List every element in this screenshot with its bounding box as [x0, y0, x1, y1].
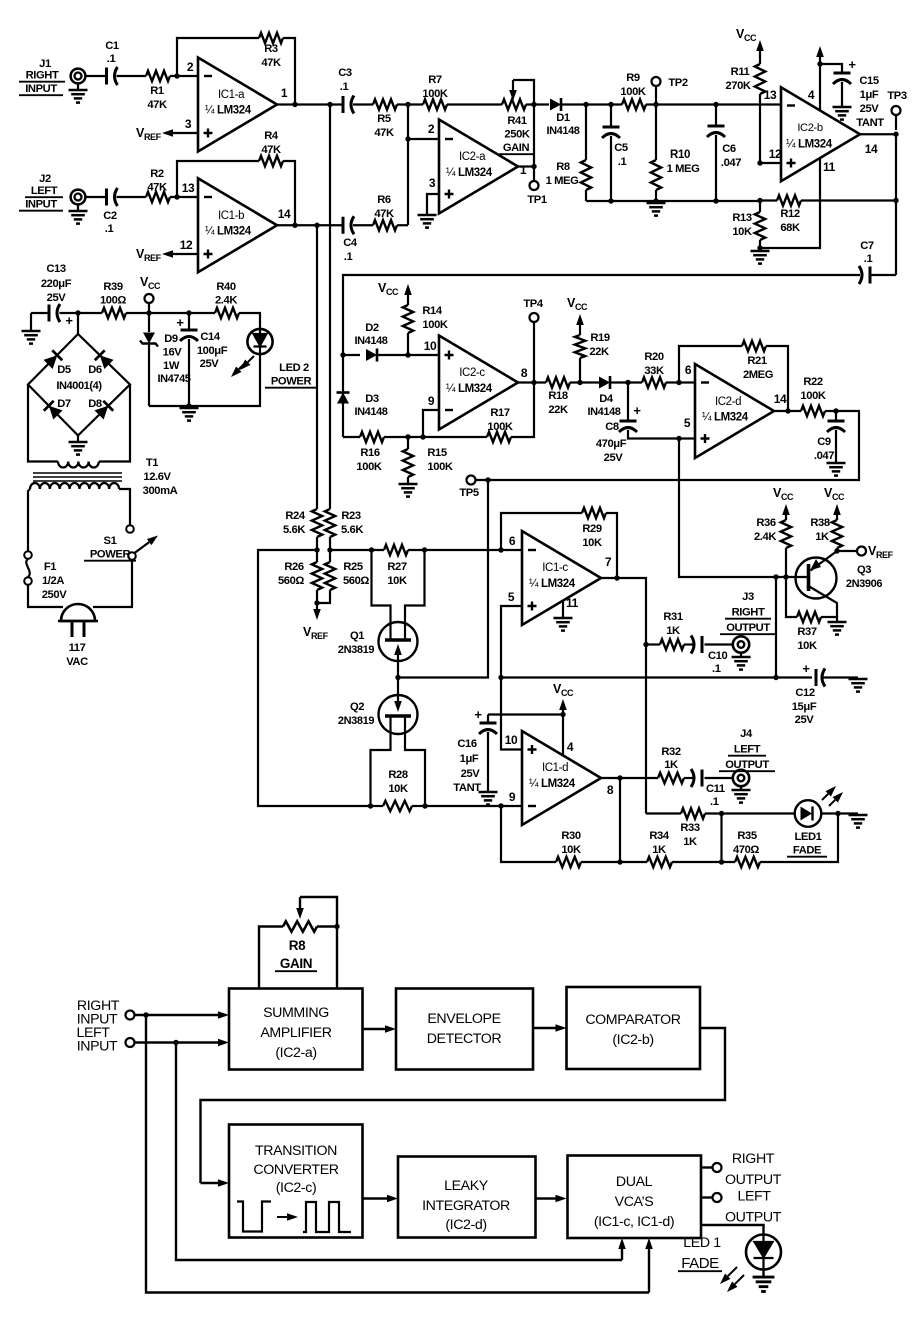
wire bridge stem: [77, 313, 79, 334]
node IC1-a output/R3: [292, 102, 297, 107]
wire to LED 1 (block): [701, 1225, 764, 1234]
node Q1 gate: [395, 675, 400, 680]
wire arrow transition to leaky: [363, 1197, 388, 1199]
LED 1 arrows (block): [728, 1267, 737, 1276]
waveform arrow: [277, 1216, 287, 1218]
wire R34 to R35: [672, 861, 735, 863]
node R13 bottom / pin 11: [757, 245, 762, 250]
resistor R39 100 ohm: [102, 308, 126, 318]
svg-text:R21: R21: [747, 355, 767, 367]
svg-text:.1: .1: [105, 223, 114, 235]
svg-text:R20: R20: [644, 351, 664, 363]
ground (pin 11): [554, 617, 573, 620]
svg-text:100K: 100K: [422, 88, 447, 100]
wire left input arrow: [135, 1041, 219, 1043]
svg-text:D5: D5: [57, 364, 71, 376]
terminal V_REF (Q3 emitter): [837, 550, 857, 552]
svg-text:S1: S1: [104, 535, 117, 547]
wire LED1 to ground (block): [762, 1270, 764, 1277]
svg-text:C1: C1: [105, 40, 119, 52]
svg-text:C12: C12: [795, 687, 815, 699]
svg-text:AMPLIFIER: AMPLIFIER: [260, 1025, 331, 1041]
svg-text:IC1-c: IC1-c: [542, 562, 568, 574]
ground (pin 3 IC2-a): [418, 214, 437, 217]
svg-text:¼ LM324: ¼ LM324: [786, 139, 833, 151]
node R31 branch: [643, 642, 648, 647]
resistor R23 5.6K: [325, 509, 335, 537]
op-amp IC2-d 1/4 LM324: [695, 364, 774, 458]
resistor R19 22K: [579, 330, 581, 335]
ground (Q3 collector/R37): [828, 621, 847, 624]
node C8 top: [625, 380, 630, 385]
svg-text:TP5: TP5: [459, 487, 478, 499]
node pin2 branch: [405, 136, 410, 141]
svg-text:RIGHT: RIGHT: [26, 70, 59, 82]
wire arrow summing to envelope: [363, 1028, 386, 1030]
resistor R14 100K: [407, 300, 409, 305]
resistor R15 100K: [403, 449, 413, 477]
node bias line/branch: [773, 675, 778, 680]
wire primary right to switch S1: [119, 489, 130, 525]
ground (C12): [849, 678, 868, 681]
node Vcc/D9: [146, 310, 151, 315]
node R30/R34 junction: [617, 859, 622, 864]
node pin 9 junction: [498, 803, 503, 808]
node summing junction (pin 2 IC2-a): [405, 102, 410, 107]
svg-text:470Ω: 470Ω: [733, 844, 759, 856]
terminal RIGHT OUTPUT (block): [701, 1166, 713, 1168]
capacitor C15 1uF 25V TANT: [820, 64, 842, 72]
svg-text:1μF: 1μF: [860, 89, 879, 101]
svg-text:13: 13: [764, 88, 777, 102]
ground (LED 1 block): [753, 1276, 775, 1279]
svg-text:3: 3: [429, 176, 436, 190]
ground (R15): [399, 483, 418, 486]
ground (bridge): [69, 441, 88, 444]
node R28 right: [422, 803, 427, 808]
V_REF arrow down: [316, 603, 318, 609]
svg-text:POWER: POWER: [90, 549, 131, 561]
wire C10 to J3: [705, 643, 733, 645]
wire detector bottom rail: [586, 201, 760, 212]
jack J2 LEFT INPUT: [71, 190, 86, 205]
resistor R12 68K: [777, 195, 801, 205]
svg-text:OUTPUT: OUTPUT: [725, 1172, 782, 1188]
svg-text:68K: 68K: [780, 222, 800, 234]
resistor R32 1K: [658, 773, 684, 783]
svg-text:Q3: Q3: [857, 564, 871, 576]
svg-text:R36: R36: [756, 517, 776, 529]
svg-text:+: +: [65, 313, 73, 328]
wire Q1 drain: [372, 550, 391, 640]
wire IC2-d output to R22: [774, 410, 801, 412]
node R24/left channel line: [314, 547, 319, 552]
capacitor C12 15uF 25V: [815, 669, 818, 686]
wire feedback up from node: [177, 38, 259, 76]
block TRANSITION CONVERTER (IC2-c): [229, 1125, 363, 1238]
svg-text:T1: T1: [146, 457, 158, 469]
svg-text:.1: .1: [340, 81, 349, 93]
svg-text:D1: D1: [556, 112, 570, 124]
AC plug 117 VAC: [61, 604, 95, 621]
resistor R24 5.6K: [312, 509, 322, 537]
svg-text:560Ω: 560Ω: [278, 575, 304, 587]
svg-text:C15: C15: [859, 75, 879, 87]
svg-text:2: 2: [187, 60, 194, 74]
wire bridge left to secondary: [28, 385, 58, 462]
svg-text:100K: 100K: [427, 461, 452, 473]
svg-text:D3: D3: [365, 393, 379, 405]
resistor R33 1K: [681, 808, 705, 818]
node R27 right: [422, 547, 427, 552]
node R28 left: [368, 803, 373, 808]
svg-text:R23: R23: [341, 510, 361, 522]
svg-text:2.4K: 2.4K: [754, 531, 776, 543]
svg-text:22K: 22K: [548, 404, 568, 416]
node right input branch: [143, 1012, 148, 1017]
svg-text:+: +: [474, 707, 482, 722]
resistor R1 47K: [146, 71, 170, 81]
svg-text:8: 8: [521, 366, 528, 380]
node C14 bottom / ground: [186, 403, 191, 408]
ground (J3): [732, 656, 751, 659]
svg-text:(IC2-b): (IC2-b): [612, 1032, 653, 1048]
node R12 left / R13 top: [757, 198, 762, 203]
svg-text:INPUT: INPUT: [25, 199, 57, 211]
svg-text:R10: R10: [670, 149, 690, 161]
svg-text:R31: R31: [663, 611, 683, 623]
svg-text:VCA’S: VCA’S: [615, 1194, 654, 1210]
svg-text:C14: C14: [200, 331, 221, 343]
svg-text:R40: R40: [216, 281, 236, 293]
svg-text:1: 1: [520, 163, 527, 177]
terminal LEFT INPUT (block): [126, 1038, 135, 1047]
switch S1 POWER: [126, 525, 134, 533]
node C6 top: [713, 102, 718, 107]
wire LED2 down to bottom rail: [149, 354, 260, 406]
wire bridge bottom to ground: [77, 436, 79, 442]
node R38/emitter/V_REF: [834, 548, 839, 553]
svg-text:¼ LM324: ¼ LM324: [205, 226, 252, 238]
wire R24 vertical from IC1-b output: [316, 225, 318, 509]
test point TP4: [533, 322, 535, 383]
svg-text:ENVELOPE: ENVELOPE: [427, 1011, 500, 1027]
svg-text:IC2-b: IC2-b: [797, 122, 823, 134]
svg-text:¼ LM324: ¼ LM324: [529, 778, 576, 790]
wire feedback R21 up: [679, 346, 742, 383]
node R23/right channel line: [327, 547, 332, 552]
svg-text:47K: 47K: [261, 57, 281, 69]
wire IC1-a output: [277, 103, 343, 105]
diode D5 (bridge): [43, 350, 62, 369]
wire R7 to R41: [447, 103, 502, 105]
svg-text:6: 6: [685, 363, 692, 377]
svg-text:LEFT: LEFT: [734, 744, 761, 756]
svg-text:100K: 100K: [356, 461, 381, 473]
svg-text:LED1: LED1: [795, 831, 822, 843]
capacitor C2 .1: [105, 189, 108, 206]
ground (C9): [827, 462, 846, 465]
svg-text:IN4001(4): IN4001(4): [56, 380, 102, 392]
svg-text:R29: R29: [582, 523, 602, 535]
svg-text:3: 3: [185, 117, 192, 131]
wire IC1-c output: [601, 578, 646, 814]
resistor R4 47K (feedback IC1-b): [259, 156, 283, 166]
svg-text:R1: R1: [150, 85, 164, 97]
capacitor C8 470uF 25V: [627, 383, 629, 421]
wire R31 line: [646, 643, 660, 645]
node Q3 base line branch: [773, 574, 778, 579]
svg-text:R4: R4: [264, 130, 279, 142]
svg-text:2.4K: 2.4K: [215, 295, 237, 307]
svg-text:LEAKY: LEAKY: [444, 1178, 489, 1194]
svg-text:R16: R16: [360, 447, 380, 459]
svg-text:100K: 100K: [487, 421, 512, 433]
svg-text:DETECTOR: DETECTOR: [427, 1031, 502, 1047]
svg-text:COMPARATOR: COMPARATOR: [585, 1012, 680, 1028]
svg-text:14: 14: [278, 207, 291, 221]
resistor R35 470 ohm: [735, 857, 760, 867]
wire fuse to plug: [28, 585, 63, 607]
resistor R28 10K: [371, 805, 384, 807]
svg-text:14: 14: [774, 392, 787, 406]
node R14 bottom / pin 10: [405, 352, 410, 357]
wire R41 to D1: [526, 103, 549, 105]
svg-text:R9: R9: [626, 72, 640, 84]
resistor R21 2MEG: [742, 341, 766, 351]
node IC1-a output to R23: [327, 102, 332, 107]
svg-text:10K: 10K: [582, 537, 602, 549]
svg-text:IN4148: IN4148: [587, 406, 620, 418]
resistor R31 1K: [660, 639, 684, 649]
terminal RIGHT INPUT (block): [126, 1011, 135, 1020]
svg-text:IN4148: IN4148: [354, 335, 387, 347]
svg-text:2N3906: 2N3906: [846, 578, 882, 590]
svg-text:1K: 1K: [815, 531, 829, 543]
svg-text:47K: 47K: [374, 208, 394, 220]
node R15 top: [405, 434, 410, 439]
capacitor C4 .1: [342, 217, 345, 234]
wire C1 to R1: [117, 75, 147, 77]
waveform low pulse: [237, 1202, 271, 1232]
svg-text:R22: R22: [803, 376, 823, 388]
wire R12 line: [760, 199, 777, 201]
LED2 light arrows: [248, 356, 254, 362]
wire bias line to C12: [501, 676, 812, 678]
svg-text:11: 11: [566, 596, 579, 610]
test point TP1: [530, 181, 539, 190]
wire R30 to R34: [581, 861, 647, 863]
svg-text:D8: D8: [88, 398, 102, 410]
svg-text:.047: .047: [721, 157, 741, 169]
svg-text:R18: R18: [548, 390, 568, 402]
svg-text:4: 4: [808, 88, 815, 102]
svg-text:R13: R13: [732, 212, 752, 224]
svg-text:R28: R28: [388, 769, 408, 781]
svg-text:D7: D7: [57, 398, 71, 410]
wire C4 to R6: [353, 224, 373, 226]
svg-text:FADE: FADE: [793, 845, 822, 857]
svg-text:IC2-c: IC2-c: [459, 367, 485, 379]
node D1/R8: [583, 102, 588, 107]
wire pin 5 IC1-c down: [501, 606, 522, 678]
svg-text:LED 1: LED 1: [683, 1235, 721, 1251]
node LED1 right: [835, 811, 840, 816]
node R12 right: [893, 198, 898, 203]
wire C11 to J4: [705, 777, 733, 779]
wire pin9 down to R30: [501, 806, 556, 862]
capacitor C9 .047: [835, 411, 837, 420]
diode D6 (bridge): [95, 350, 114, 369]
resistor R26 560ohm: [312, 562, 322, 590]
svg-text:5.6K: 5.6K: [283, 524, 305, 536]
resistor R37 10K: [797, 612, 821, 622]
svg-text:220μF: 220μF: [41, 278, 72, 290]
svg-text:VAC: VAC: [66, 656, 88, 668]
op-amp IC2-b 1/4 LM324: [781, 87, 860, 181]
svg-text:F1: F1: [44, 561, 56, 573]
svg-text:1/2A: 1/2A: [42, 575, 64, 587]
wire right channel line to pin 6 IC1-c: [330, 549, 384, 551]
capacitor C5 .1: [610, 105, 612, 128]
svg-text:9: 9: [509, 790, 516, 804]
svg-text:22K: 22K: [589, 346, 609, 358]
Vcc arrow R19: [579, 325, 581, 330]
op-amp IC1-b 1/4 LM324: [198, 178, 277, 272]
JFET Q2 2N3819: [397, 678, 399, 696]
LED1 FADE: [795, 800, 822, 827]
svg-text:10K: 10K: [388, 783, 408, 795]
svg-text:RIGHT: RIGHT: [732, 607, 765, 619]
svg-text:R8: R8: [556, 161, 570, 173]
svg-text:R33: R33: [680, 822, 700, 834]
node left input branch: [173, 1040, 178, 1045]
svg-text:FADE: FADE: [681, 1255, 719, 1272]
svg-text:270K: 270K: [725, 80, 750, 92]
svg-text:10K: 10K: [732, 226, 752, 238]
op-amp IC1-c 1/4 LM324: [522, 531, 601, 625]
Vcc arrow R14: [407, 295, 409, 300]
svg-text:.1: .1: [618, 156, 627, 168]
resistor R16 100K: [360, 432, 384, 442]
wire feedback up to R4: [177, 161, 259, 197]
resistor R2 47K: [146, 192, 170, 202]
svg-text:10K: 10K: [387, 575, 407, 587]
svg-text:IC2-d: IC2-d: [715, 396, 741, 408]
node pin 12 junction: [757, 160, 762, 165]
wire IC1-d output: [601, 777, 658, 779]
node pin 9 branch: [420, 434, 425, 439]
svg-text:POWER: POWER: [271, 376, 312, 388]
capacitor C3 .1: [342, 96, 345, 113]
JFET Q1 2N3819: [379, 622, 418, 661]
svg-text:R24: R24: [285, 510, 306, 522]
svg-text:CONVERTER: CONVERTER: [253, 1162, 338, 1178]
svg-text:C13: C13: [46, 263, 66, 275]
svg-text:10: 10: [505, 733, 518, 747]
resistor R38 1K: [836, 518, 838, 520]
svg-text:J4: J4: [740, 728, 753, 740]
svg-text:INPUT: INPUT: [25, 83, 57, 95]
Vcc arrow R38: [836, 515, 838, 520]
ground (C16): [479, 791, 498, 794]
svg-text:.1: .1: [344, 251, 353, 263]
svg-text:25V: 25V: [47, 292, 67, 304]
node pin 4 / Vcc: [560, 712, 565, 717]
svg-text:Q2: Q2: [350, 701, 364, 713]
svg-text:TP2: TP2: [668, 77, 687, 89]
wire supply rail left end + ground drop: [31, 312, 49, 314]
transformer T1 12.6V 300mA secondary: [58, 462, 99, 468]
svg-text:.1: .1: [107, 53, 116, 65]
wire feedback R29: [501, 513, 582, 550]
svg-text:J1: J1: [39, 58, 51, 70]
resistor R36 2.4K: [785, 518, 787, 520]
svg-text:470μF: 470μF: [596, 438, 627, 450]
pin 4 power arrow IC2-b: [819, 62, 821, 111]
svg-text:TP1: TP1: [527, 194, 546, 206]
svg-text:¼ LM324: ¼ LM324: [205, 105, 252, 117]
node IC1-b output/R4: [292, 223, 297, 228]
wire R1 to node, node to pin2 IC1-a: [170, 75, 198, 77]
wire J2 to C2: [85, 196, 106, 198]
svg-text:(IC2-d): (IC2-d): [445, 1217, 486, 1233]
svg-text:IC1-a: IC1-a: [218, 89, 245, 101]
svg-text:¼ LM324: ¼ LM324: [702, 412, 749, 424]
svg-text:LEFT: LEFT: [737, 1189, 771, 1205]
LED 1 FADE (block): [746, 1235, 781, 1270]
svg-text:D9: D9: [164, 333, 178, 345]
wire R40 to LED2: [239, 313, 260, 329]
ground (C14): [180, 407, 199, 410]
node R36/base line: [783, 574, 788, 579]
svg-text:TRANSITION: TRANSITION: [255, 1143, 337, 1159]
wire R29 to output: [606, 513, 617, 578]
wire pin 11 IC2-b: [760, 158, 820, 248]
wire R32 to C11: [684, 777, 694, 779]
svg-text:R37: R37: [797, 626, 817, 638]
transistor Q3 2N3906: [796, 558, 837, 599]
svg-text:100μF: 100μF: [197, 345, 228, 357]
svg-text:OUTPUT: OUTPUT: [725, 759, 769, 771]
svg-text:8: 8: [607, 783, 614, 797]
svg-text:10: 10: [424, 339, 437, 353]
svg-text:INPUT: INPUT: [77, 1039, 118, 1055]
ground (J1): [69, 89, 88, 92]
wire R33 junction down: [720, 814, 722, 863]
svg-text:J2: J2: [39, 173, 51, 185]
svg-text:6: 6: [509, 534, 516, 548]
svg-text:OUTPUT: OUTPUT: [726, 622, 770, 634]
svg-text:R7: R7: [428, 74, 442, 86]
resistor R13 10K: [755, 212, 765, 240]
wire R3 to IC1-a output: [283, 38, 295, 105]
svg-text:47K: 47K: [374, 127, 394, 139]
svg-text:C16: C16: [457, 738, 477, 750]
svg-text:Q1: Q1: [350, 630, 364, 642]
svg-text:12: 12: [769, 147, 782, 161]
V_REF arrow into pin 3 IC1-a: [173, 132, 198, 134]
svg-text:¼ LM324: ¼ LM324: [446, 383, 493, 395]
svg-text:C5: C5: [614, 142, 628, 154]
svg-text:47K: 47K: [147, 182, 167, 194]
svg-text:C6: C6: [722, 143, 736, 155]
resistor R30 10K: [556, 857, 581, 867]
resistor R11 270K: [759, 56, 761, 64]
terminal Vcc: [148, 303, 150, 313]
wire pin5/pin10 vertical: [501, 678, 522, 750]
svg-text:15μF: 15μF: [792, 701, 817, 713]
